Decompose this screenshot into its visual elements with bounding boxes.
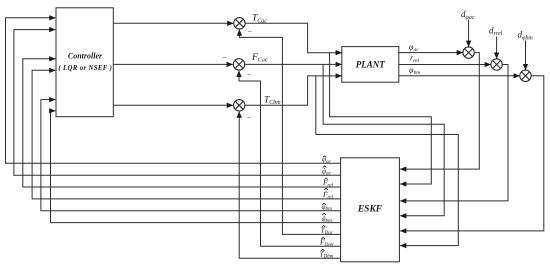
hat accent over phi_ac_dot_hat [323, 166, 327, 168]
wire: ESKF output 4 F_rel_dot_hat to controller input 4 [32, 70, 341, 199]
svg-text:φbm: φbm [322, 215, 333, 224]
wire: measurement 2 from S5 to ESKF input 3 [400, 65, 508, 201]
hat accent over F_rel_hat [324, 178, 328, 180]
hat accent over F_rel_dot_hat [324, 188, 328, 190]
svg-text:dφac: dφac [461, 9, 475, 21]
svg-text:TDbm: TDbm [320, 249, 334, 259]
wire: S1 output T_Cac to plant input 1 [245, 23, 342, 52]
wire: controller output 2 to summing junction S2 [113, 63, 232, 65]
summing junction S1 [234, 18, 245, 29]
dot accent over F_rel_dot_hat [326, 191, 327, 192]
summing junction S6 [520, 70, 531, 81]
svg-text:rrel: rrel [410, 54, 420, 65]
ESKF block [341, 158, 400, 262]
hat accent over F_Drel_hat [321, 237, 325, 239]
summing junction S5 [491, 59, 502, 70]
svg-text:FCac: FCac [251, 53, 268, 64]
wire: control tap F_Cac to ESKF input 4 [323, 64, 444, 215]
svg-text:Frel: Frel [322, 191, 334, 200]
wire: ESKF output 7 T_Dac_hat to S1 lower input [239, 30, 340, 235]
wire: control tap T_Cac to ESKF input 2 [330, 53, 432, 184]
svg-text:φbm: φbm [409, 66, 420, 77]
hat accent over phi_bm_dot_hat [322, 213, 326, 215]
dot accent over phi_bm_dot_hat [324, 216, 325, 217]
wire: measurement 1 from S4 to ESKF input 1 [400, 53, 479, 170]
svg-text:TCac: TCac [252, 14, 267, 25]
hat accent over phi_ac_hat [323, 156, 327, 158]
hat accent over T_Dbm_hat [321, 249, 325, 251]
plant block [342, 47, 399, 83]
wire: controller output 1 to summing junction S1 [113, 22, 233, 24]
svg-text:−: − [247, 28, 252, 37]
hat accent over phi_bm_hat [322, 203, 326, 205]
wire: controller output 3 to summing junction S3 [113, 104, 233, 106]
svg-text:TCbm: TCbm [264, 95, 281, 106]
wire: control tap T_Cbm to ESKF input 6 [316, 76, 459, 246]
svg-text:ESKF: ESKF [357, 204, 383, 214]
summing junction S2 [233, 59, 244, 70]
wire: measurement 3 from S6 to ESKF input 5 [400, 76, 544, 231]
summing junction S3 [234, 100, 245, 111]
svg-text:−: − [247, 113, 252, 122]
dot accent over phi_ac_dot_hat [324, 168, 325, 169]
summing junction S4 [463, 47, 474, 58]
wire: ESKF output 3 F_rel_hat to controller input 3 [23, 59, 341, 187]
wire: S2 output F_Cac to plant input 2 [245, 63, 342, 65]
svg-text:drrel: drrel [489, 25, 503, 37]
svg-text:−: − [247, 71, 252, 80]
controller block U1 (LQR or NSEF) [56, 8, 113, 117]
svg-text:TDac: TDac [321, 226, 334, 236]
hat accent over T_Dac_hat [322, 226, 326, 228]
wire: disturbance d_Frel into S5 [496, 37, 498, 59]
wire: plant output phi_ac to summing junction S4 [399, 52, 463, 54]
svg-text:( LQR or NSEF ): ( LQR or NSEF ) [58, 65, 112, 72]
wire: plant output F_rel to summing junction S5 [399, 64, 491, 66]
svg-text:−: − [222, 54, 227, 63]
svg-text:PLANT: PLANT [356, 59, 385, 69]
wire: plant output phi_bm to summing junction S6 [399, 75, 520, 77]
wire: S3 output T_Cbm to plant input 3 [245, 76, 342, 105]
wire: disturbance d_phiac into S4 [468, 20, 470, 47]
svg-text:Frel: Frel [322, 179, 334, 188]
wire: disturbance d_phibm into S6 [525, 41, 527, 70]
svg-text:dφbm: dφbm [518, 30, 534, 42]
wire: ESKF output 8 F_Drel_hat to S2 lower input [239, 71, 341, 246]
wire: ESKF output 5 phi_bm_hat to controller input 5 [41, 100, 341, 211]
wire: ESKF output 9 T_Dbm_hat to S3 lower input [239, 112, 340, 259]
wire: ESKF output 1 phi_ac_hat to controller input 1 [6, 18, 341, 164]
wire: ESKF output 6 phi_bm_dot_hat to controller input 6 [51, 111, 341, 223]
svg-text:Controller: Controller [68, 52, 103, 61]
svg-text:φac: φac [322, 167, 332, 176]
svg-text:φac: φac [409, 43, 419, 54]
wire: ESKF output 2 phi_ac_dot_hat to controller input 2 [14, 30, 341, 176]
svg-text:FDrel: FDrel [319, 238, 334, 248]
